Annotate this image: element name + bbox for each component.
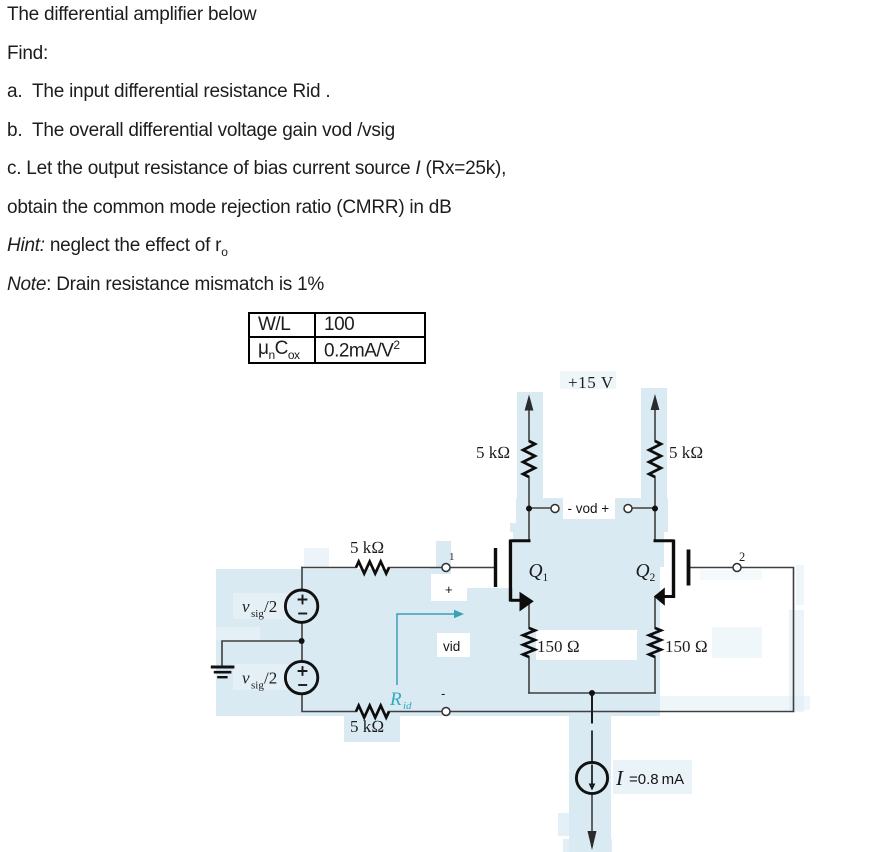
svg-text:5 kΩ: 5 kΩ (350, 538, 384, 557)
svg-text:Q: Q (529, 561, 543, 582)
svg-text:/2: /2 (264, 669, 277, 688)
svg-text:150 Ω: 150 Ω (665, 637, 708, 656)
svg-text:v: v (242, 597, 250, 616)
svg-text:1: 1 (543, 572, 549, 584)
svg-text:I: I (615, 766, 624, 790)
svg-text:150 Ω: 150 Ω (537, 637, 580, 656)
svg-text:id: id (403, 700, 412, 712)
svg-text:sig: sig (251, 680, 264, 692)
svg-text:vid: vid (443, 639, 460, 654)
svg-text:1: 1 (449, 551, 455, 563)
svg-text:=0.8 mA: =0.8 mA (629, 771, 684, 788)
svg-text:+: + (445, 582, 453, 597)
svg-text:5 kΩ: 5 kΩ (476, 443, 510, 462)
svg-text:5 kΩ: 5 kΩ (350, 717, 384, 736)
svg-text:sig: sig (251, 608, 264, 620)
svg-text:R: R (389, 689, 402, 710)
svg-text:- vod +: - vod + (568, 501, 610, 516)
svg-text:-: - (441, 686, 445, 701)
svg-text:2: 2 (650, 572, 656, 584)
svg-text:5 kΩ: 5 kΩ (669, 443, 703, 462)
svg-text:2: 2 (739, 550, 745, 564)
svg-text:/2: /2 (264, 597, 277, 616)
svg-text:v: v (242, 669, 250, 688)
svg-text:+15 V: +15 V (568, 373, 614, 392)
svg-text:Q: Q (636, 561, 650, 582)
